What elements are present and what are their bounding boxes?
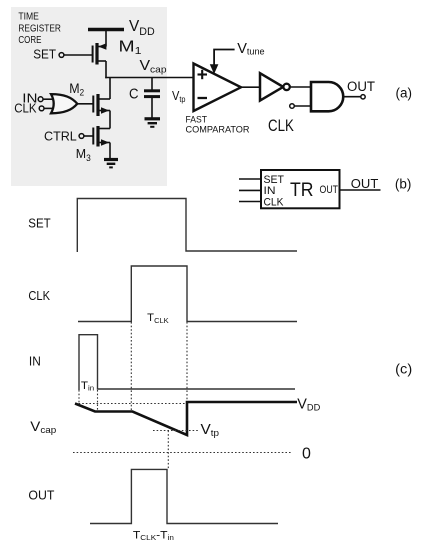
dotted line Vtp level <box>153 430 199 432</box>
svg-text:(a): (a) <box>396 86 413 101</box>
inverter U2 <box>260 73 283 100</box>
svg-text:SET: SET <box>33 47 56 62</box>
transistor M3 (NMOS) <box>93 126 110 147</box>
svg-text:IN: IN <box>29 353 41 368</box>
wire CTRL to M3 gate <box>84 135 93 137</box>
wire or-gate to M2 gate <box>77 103 93 105</box>
svg-text:CLK: CLK <box>264 197 285 209</box>
svg-text:SET: SET <box>28 216 51 231</box>
wire inverter to and-gate <box>290 86 311 88</box>
wire M2 source to M3 drain <box>109 111 111 129</box>
svg-text:OUT: OUT <box>320 184 339 196</box>
node Vcap wire <box>105 77 193 79</box>
wire and-gate to OUT <box>344 96 361 98</box>
TR block input wire SET <box>239 178 261 180</box>
transistor M1 (PMOS) <box>93 43 107 65</box>
wire CLK to and-gate <box>295 105 312 107</box>
svg-text:TIME: TIME <box>18 12 39 23</box>
svg-text:CLK: CLK <box>268 117 294 135</box>
svg-text:(b): (b) <box>395 177 412 192</box>
time register core shaded region <box>11 7 167 186</box>
VDD supply bar <box>88 28 124 31</box>
wire M2 drain to Vcap node <box>109 78 111 100</box>
ground under M3 <box>104 160 118 168</box>
svg-text:TCLK: TCLK <box>147 312 169 325</box>
svg-text:Vtp: Vtp <box>172 88 186 104</box>
dotted line zero level <box>73 452 291 454</box>
terminal OUT <box>361 95 365 99</box>
dotted line at IN fall <box>97 390 99 412</box>
svg-text:CORE: CORE <box>18 35 41 46</box>
wire comparator to inverter <box>241 86 260 88</box>
dotted line at IN rise <box>78 390 80 404</box>
TR block input wire IN <box>239 189 261 191</box>
transistor M2 (NMOS) <box>93 94 110 116</box>
svg-text:Vtp: Vtp <box>201 422 220 438</box>
waveform SET <box>77 199 297 253</box>
svg-text:OUT: OUT <box>347 79 375 94</box>
dotted line at Vtp crossing <box>167 431 169 470</box>
svg-text:0: 0 <box>302 446 311 463</box>
wire SET to M1 gate <box>64 54 93 56</box>
svg-text:IN: IN <box>264 185 276 197</box>
waveform OUT <box>90 469 278 523</box>
svg-text:CTRL: CTRL <box>44 129 77 144</box>
wire TR OUT <box>340 189 381 191</box>
svg-text:CLK: CLK <box>14 100 37 115</box>
op-amp U1 fast comparator <box>194 64 242 112</box>
terminal CLK <box>39 106 44 111</box>
wire IN to or-gate <box>43 98 53 100</box>
or-gate G1 inputs IN CLK <box>51 94 77 113</box>
svg-text:Vcap: Vcap <box>30 418 56 435</box>
svg-text:SET: SET <box>264 174 285 186</box>
terminal CLK (gate input) <box>290 104 295 109</box>
waveform Vcap <box>75 402 297 435</box>
wire CLK to or-gate <box>44 107 53 109</box>
svg-text:Tin: Tin <box>81 380 94 393</box>
dotted line VDD level <box>75 403 188 405</box>
svg-text:Vtune: Vtune <box>237 40 264 57</box>
svg-text:OUT: OUT <box>351 176 379 191</box>
dotted line at CLK rise <box>130 322 132 412</box>
wire M3 source to ground <box>109 143 111 160</box>
ground under C <box>145 119 161 127</box>
minus input mark <box>198 97 208 99</box>
svg-text:CLK: CLK <box>28 288 50 303</box>
waveform CLK <box>78 266 297 322</box>
inverter bubble <box>283 84 289 90</box>
capacitor C <box>144 78 160 118</box>
svg-text:REGISTER: REGISTER <box>18 23 61 34</box>
TR block input wire CLK <box>239 201 261 203</box>
TR block U3 <box>261 170 340 208</box>
and-gate G2 <box>311 82 343 111</box>
plus input mark <box>198 70 208 79</box>
dotted line at CLK fall <box>186 322 188 434</box>
terminal IN <box>38 97 43 102</box>
svg-text:C: C <box>129 85 139 102</box>
svg-text:COMPARATOR: COMPARATOR <box>186 124 250 135</box>
svg-text:OUT: OUT <box>28 487 54 502</box>
Vtune arrow <box>214 50 235 67</box>
waveform IN <box>79 335 295 390</box>
wire M1 source to VDD <box>105 30 107 47</box>
terminal CTRL <box>79 134 84 139</box>
svg-text:VDD: VDD <box>297 397 320 413</box>
svg-text:TR: TR <box>290 180 314 201</box>
svg-text:TCLK-Tin: TCLK-Tin <box>133 529 174 542</box>
wire M1 drain to node Vcap <box>105 61 107 78</box>
svg-text:(c): (c) <box>395 361 412 376</box>
terminal SET <box>59 53 64 58</box>
